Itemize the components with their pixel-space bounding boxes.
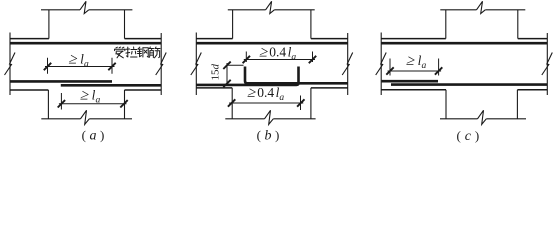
lower column right side (a) bbox=[124, 90, 126, 119]
svg-text:c: c bbox=[465, 129, 472, 143]
label >= la (c) bbox=[405, 52, 417, 69]
beam top edge (a) bbox=[10, 38, 49, 40]
label tension rebar 受拉钢筋 bbox=[115, 47, 160, 58]
long bottom bar from right span (c) bbox=[391, 83, 547, 86]
top column break symbol (a) bbox=[80, 1, 89, 13]
upper dim extension lines (a) bbox=[47, 58, 49, 74]
15d top extension stub (b) bbox=[227, 64, 244, 66]
upper dimension line >= la (a) bbox=[45, 66, 115, 68]
lower column right side (b) bbox=[310, 88, 312, 119]
lower column break symbol (a) bbox=[81, 110, 90, 124]
short lap bar from left span (c) bbox=[382, 80, 438, 83]
15d dimension line (b) bbox=[226, 63, 228, 86]
top column left side (a) bbox=[48, 10, 50, 39]
beam right end (a) bbox=[160, 33, 162, 95]
beam left break (c) bbox=[376, 53, 387, 76]
svg-text:(: ( bbox=[82, 128, 86, 143]
top column left side (c) bbox=[445, 10, 447, 39]
bottom rebar from left span with bent-up leg (b) bbox=[196, 67, 298, 85]
top column left side (b) bbox=[232, 10, 234, 39]
beam top edge (b) bbox=[196, 38, 232, 40]
lower column left side (c) bbox=[445, 90, 447, 119]
top dim extension lines (b) bbox=[245, 52, 247, 63]
beam bottom edge (c) bbox=[381, 89, 446, 91]
top column cut line (c) bbox=[440, 9, 476, 11]
label >= 0.4 la top (b) bbox=[258, 44, 270, 61]
top column cut line (a) bbox=[41, 9, 80, 11]
bottom rebar from right span with bent-up leg (b) bbox=[245, 67, 348, 84]
bottom rebar from right span (a) bbox=[61, 84, 161, 87]
lower dim extension line (a) bbox=[60, 93, 62, 110]
bottom dimension line >= 0.4 la (b) bbox=[229, 102, 303, 104]
beam left end (a) bbox=[9, 33, 11, 96]
lower dimension line >= la (a) bbox=[59, 103, 127, 105]
top column right side (b) bbox=[310, 10, 312, 39]
lower column cut line (a) bbox=[41, 118, 80, 120]
beam top edge (c) bbox=[381, 38, 446, 40]
beam left break (a) bbox=[5, 53, 16, 76]
top tension rebar (a) bbox=[10, 42, 161, 45]
svg-text:a: a bbox=[90, 129, 97, 144]
top column break symbol (c) bbox=[477, 1, 486, 13]
lower column break symbol (b) bbox=[265, 110, 274, 124]
top column cut line (b) bbox=[228, 9, 266, 11]
beam right break (c) bbox=[542, 53, 553, 76]
label >= la upper (a) bbox=[67, 51, 79, 68]
lower column cut line (b) bbox=[225, 118, 264, 120]
lower column right side (c) bbox=[516, 90, 518, 119]
bottom rebar from left span (a) bbox=[11, 80, 113, 83]
beam left end (c) bbox=[380, 33, 382, 96]
beam right end (c) bbox=[546, 33, 548, 95]
label >= 0.4 la bottom (b) bbox=[246, 84, 258, 101]
svg-text:(: ( bbox=[257, 128, 261, 143]
dim extension lines (c) bbox=[389, 59, 391, 76]
svg-text:): ) bbox=[475, 128, 479, 143]
bottom dim right extension line (b) bbox=[300, 96, 302, 111]
svg-text:b: b bbox=[265, 129, 272, 144]
top column break symbol (b) bbox=[266, 1, 275, 13]
beam right break (a) bbox=[156, 53, 167, 76]
caption (b) bbox=[257, 128, 280, 144]
svg-text:(: ( bbox=[457, 128, 461, 143]
beam left end (b) bbox=[195, 33, 197, 96]
lower column break symbol (c) bbox=[478, 110, 487, 124]
beam left break (b) bbox=[191, 53, 202, 76]
beam bottom edge (a) bbox=[10, 89, 48, 91]
top tension rebar (b) bbox=[196, 42, 347, 45]
beam right end (b) bbox=[347, 33, 349, 95]
top tension rebar (c) bbox=[381, 42, 547, 45]
top column right side (c) bbox=[517, 10, 519, 39]
caption (a) bbox=[82, 128, 105, 144]
caption (c) bbox=[457, 128, 480, 144]
lower column left side (b) bbox=[231, 88, 233, 119]
lower column left side (a) bbox=[47, 90, 49, 119]
top dimension line >= 0.4 la (b) bbox=[244, 59, 315, 61]
label >= la lower (a) bbox=[79, 87, 91, 104]
svg-text:15d: 15d bbox=[210, 64, 222, 81]
lower column cut line (c) bbox=[440, 118, 478, 120]
beam right break (b) bbox=[342, 53, 353, 76]
svg-text:): ) bbox=[275, 128, 279, 143]
top column right side (a) bbox=[124, 10, 126, 39]
dimension line >= la (c) bbox=[388, 70, 442, 72]
svg-text:): ) bbox=[100, 128, 104, 143]
beam bottom edge (b) bbox=[196, 87, 232, 89]
